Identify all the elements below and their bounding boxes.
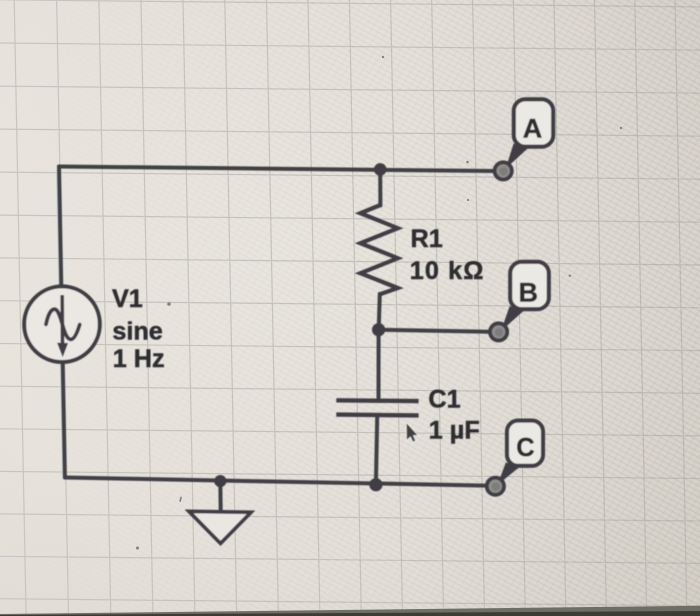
label B box [510, 262, 549, 309]
terminal B [490, 323, 507, 340]
wire: capacitor C1 top lead [377, 330, 381, 399]
wire: top horizontal (V1+ to node A) [59, 167, 493, 172]
wire: middle horizontal node B [379, 330, 489, 332]
junction: resistor top on node A net [374, 163, 387, 176]
leader A [506, 144, 529, 169]
wire: left vertical V1 top lead [59, 167, 61, 289]
label A box [514, 99, 553, 146]
svg-text:sine: sine [112, 317, 162, 345]
wire: resistor R1 bottom lead [379, 294, 380, 330]
svg-text:C: C [516, 434, 534, 462]
svg-text:B: B [518, 278, 538, 308]
capacitor C1 [336, 400, 418, 415]
leader C [497, 463, 520, 485]
svg-text:V1: V1 [112, 285, 143, 313]
svg-text:R1: R1 [411, 225, 443, 253]
svg-text:1 Hz: 1 Hz [113, 345, 165, 373]
wire: ground stub [218, 481, 222, 511]
svg-text:C1: C1 [428, 385, 460, 413]
voltage source V1 [24, 286, 100, 362]
svg-text:1 µF: 1 µF [429, 416, 480, 444]
label C box [507, 421, 543, 466]
wire: left vertical V1 bottom lead [63, 361, 65, 478]
wire: bottom horizontal ground net [65, 478, 486, 486]
terminal A [495, 162, 512, 179]
resistor R1 [360, 205, 397, 294]
junction: ground symbol tap [214, 475, 226, 487]
wire: capacitor C1 bottom lead [376, 417, 377, 484]
leader B [501, 306, 525, 331]
svg-text:10 kΩ: 10 kΩ [410, 257, 485, 285]
junction: capacitor bottom on ground net [369, 478, 382, 491]
ground [189, 511, 251, 543]
mouse cursor [407, 423, 418, 442]
svg-text:A: A [523, 113, 543, 143]
wire: resistor R1 top lead [378, 169, 382, 205]
terminal C [487, 478, 504, 495]
junction: resistor bottom node B [372, 323, 385, 336]
